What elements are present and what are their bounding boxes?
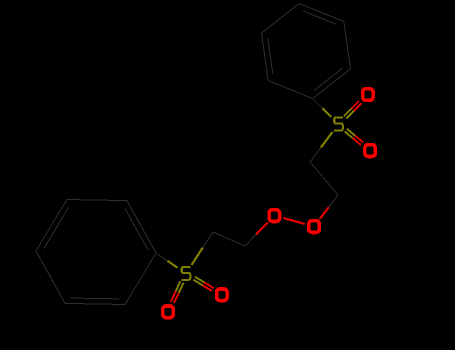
atom O (top sulfonyl upper) xyxy=(363,89,374,101)
bond CH2-CH2 (bottom chain) xyxy=(213,232,245,246)
bond CH2-CH2 (top chain) xyxy=(310,162,338,195)
S=O double bond (top sulfonyl, lower O) xyxy=(345,129,363,145)
bond top-ring C to S (top sulfonyl) xyxy=(313,99,331,117)
S=O double bond (bottom sulfonyl, lower O) xyxy=(171,281,184,303)
atom O (bottom sulfonyl right) xyxy=(217,289,228,301)
atom S (top sulfonyl) xyxy=(334,118,343,131)
S=O double bond (top sulfonyl, upper O) xyxy=(344,101,362,119)
peroxide O-O bond xyxy=(284,218,305,224)
bond CH2-O (left peroxide O) xyxy=(245,222,268,246)
benzene ring (bottom-left, phenyl) xyxy=(36,200,156,305)
atom O (peroxide right) xyxy=(309,221,320,233)
benzene ring (top, phenyl) xyxy=(262,4,351,99)
S=O double bond (bottom sulfonyl, right O) xyxy=(193,277,213,291)
bond CH2-O (right peroxide O) xyxy=(320,195,338,219)
bond CH2-S (top) xyxy=(310,132,333,162)
atom O (bottom sulfonyl lower) xyxy=(163,306,174,318)
bond bottom-ring C to S (bottom sulfonyl) xyxy=(157,254,178,268)
atom S (bottom sulfonyl) xyxy=(182,267,191,280)
atom O (top sulfonyl lower) xyxy=(365,145,376,157)
bond CH2-S (bottom) xyxy=(192,232,214,265)
atom O (peroxide left) xyxy=(269,210,280,222)
